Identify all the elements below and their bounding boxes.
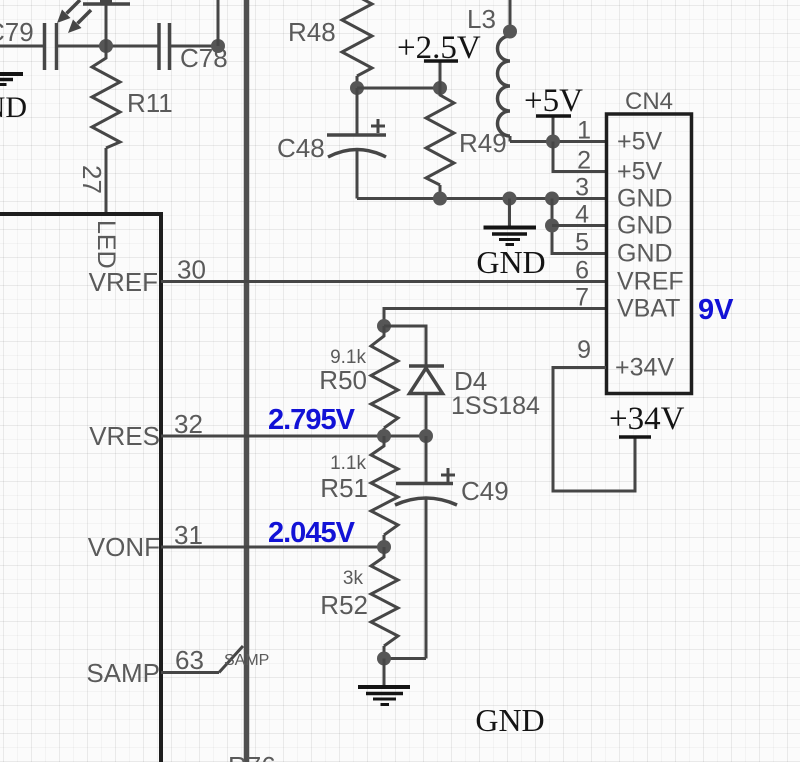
diode D4 [409,366,444,436]
connector CN4 box [607,114,692,394]
svg-text:C49: C49 [461,476,509,506]
wire C49 bottom to R52 bottom [384,657,426,660]
arrow light 1 [57,0,80,23]
capacitor C79 [45,23,57,70]
svg-text:3: 3 [575,174,589,202]
wire bottom rail C48 R49 L3 to CN4 pin3 [357,197,606,200]
node junction right of C78 [211,39,225,53]
svg-text:GND: GND [475,702,544,738]
svg-text:R52: R52 [320,590,368,620]
svg-text:C48: C48 [277,133,325,163]
capacitor plate top edge [83,0,130,4]
wire bus vertical thick [244,0,250,762]
svg-text:4: 4 [575,201,589,229]
node junction +5V pin1 [546,135,560,149]
svg-text:9V: 9V [698,294,734,326]
svg-text:SAMP: SAMP [224,652,269,669]
svg-text:VONF: VONF [88,532,160,562]
node junction VONF R51 R52 [377,540,391,554]
node junction pin3 column [545,192,559,206]
svg-text:1SS184: 1SS184 [451,392,540,420]
node junction D4 C49 [419,429,433,443]
wire R48 node to R49 node [357,87,440,90]
svg-text:R76: R76 [228,751,276,762]
svg-text:+5V: +5V [524,83,583,119]
svg-text:2.795V: 2.795V [268,404,356,436]
wire L3 to CN4 pin1 [510,140,606,143]
wire stem up from node [105,0,108,46]
ground symbol mid [484,199,537,245]
svg-text:+34V: +34V [615,354,674,382]
svg-text:GND: GND [476,244,545,280]
svg-text:GND: GND [617,212,673,240]
node junction pin4 [545,219,559,233]
svg-text:1: 1 [577,117,591,145]
arrow light 2 [68,10,91,33]
svg-text:GND: GND [617,185,673,213]
capacitor C48 polarized [327,88,386,199]
svg-text:VRES: VRES [89,421,160,451]
svg-text:GND: GND [617,240,673,268]
wire VBAT pin7 [384,309,606,327]
wire pin1 node down to pin2 [553,142,606,172]
svg-text:R51: R51 [320,473,368,503]
power +34V symbol [619,435,651,439]
node junction VBAT split [377,319,391,333]
svg-text:5: 5 [575,229,589,257]
wire C78 to right node [170,45,219,48]
ground left edge symbol [0,74,23,85]
resistor R11 [92,46,120,212]
svg-text:27: 27 [77,165,107,194]
svg-text:+2.5V: +2.5V [397,30,481,66]
node junction GND rail [503,192,517,206]
resistor R50 [371,326,398,436]
resistor R51 [371,436,398,547]
node junction R49 bottom [433,192,447,206]
ground symbol bottom [358,659,410,705]
wire pin9 to +34V [553,368,635,492]
wire VONF pin31 [161,546,384,549]
node junction R52 C49 gnd [377,652,391,666]
capacitor C49 polarized [395,436,457,659]
wire pin4 [552,224,606,227]
wire pin3 column down to pin5 [552,199,606,254]
svg-text:SAMP: SAMP [86,658,160,688]
svg-text:1.1k: 1.1k [330,453,366,474]
svg-text:2.045V: 2.045V [268,517,356,549]
svg-text:63: 63 [175,645,204,675]
resistor R48 [342,0,372,88]
svg-text:30: 30 [177,255,206,285]
svg-text:9: 9 [577,336,591,364]
svg-text:+5V: +5V [617,128,663,156]
wire C79 to node [57,45,160,48]
wire C79 left lead [0,45,44,48]
svg-text:VREF: VREF [89,267,158,297]
svg-text:R48: R48 [288,17,336,47]
power +2.5V symbol [424,61,458,88]
wire stem up from C78 node [217,0,220,46]
svg-text:CN4: CN4 [625,88,673,115]
svg-text:C79: C79 [0,17,34,47]
svg-text:L3: L3 [467,4,496,34]
svg-text:VREF: VREF [617,268,684,296]
svg-text:+5V: +5V [617,158,663,186]
inductor L3 [498,0,511,142]
svg-text:R50: R50 [319,365,367,395]
svg-text:32: 32 [174,409,203,439]
svg-text:2: 2 [577,147,591,175]
svg-text:3k: 3k [343,568,364,589]
wire branch to D4 [384,326,426,366]
power +5V symbol [536,116,571,142]
node junction at C79/C78/R11 [99,39,113,53]
svg-text:LED: LED [92,220,120,269]
capacitor C78 [159,23,170,70]
svg-text:31: 31 [174,520,203,550]
svg-text:+34V: +34V [609,401,685,437]
resistor R49 [426,88,454,199]
node junction +2.5V / R49 top [433,81,447,95]
svg-text:6: 6 [575,257,589,285]
svg-text:VBAT: VBAT [617,295,680,323]
wire VREF long [161,280,606,283]
wire SAMP pin63 [161,671,219,674]
resistor R52 [371,547,398,659]
svg-text:R11: R11 [127,88,173,118]
svg-text:7: 7 [575,284,589,312]
node junction VRES R50 R51 [377,429,391,443]
svg-text:GND: GND [0,91,27,124]
wire SAMP diagonal flag [219,646,243,673]
node junction L3 top [503,25,517,39]
IC U1 box edge [0,214,161,762]
wire VRES pin32 [161,435,426,438]
node junction R48 bottom [350,81,364,95]
